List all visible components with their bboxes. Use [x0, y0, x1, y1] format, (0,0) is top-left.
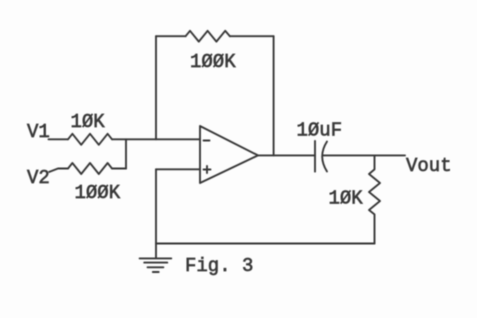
ground	[140, 244, 172, 273]
wire feedback left vertical	[155, 36, 157, 139]
op-amp U1	[200, 126, 258, 183]
svg-text:1ØuF: 1ØuF	[297, 120, 343, 142]
wire feedback top right segment	[230, 35, 274, 37]
wire feedback right vertical to output	[273, 36, 275, 155]
wire Vout node to label	[375, 154, 406, 156]
capacitor C1 left plate	[314, 141, 316, 172]
svg-text:1ØK: 1ØK	[329, 188, 364, 210]
svg-text:V2: V2	[27, 167, 50, 189]
resistor R2 100K	[68, 163, 112, 174]
svg-text:Fig. 3: Fig. 3	[185, 255, 253, 277]
resistor R4 10K vertical	[369, 155, 380, 243]
op-amp minus pin mark	[204, 140, 210, 142]
capacitor C1 curved plate	[322, 142, 327, 172]
wire ground rail	[156, 243, 375, 245]
svg-text:1ØØK: 1ØØK	[190, 51, 236, 73]
wire V1 input	[49, 138, 69, 140]
wire capacitor to Vout node	[323, 154, 375, 156]
svg-text:1ØØK: 1ØØK	[75, 182, 121, 204]
svg-text:V1: V1	[27, 121, 50, 143]
wire feedback top left segment	[156, 35, 186, 37]
wire node A up to inverting line	[125, 139, 127, 168]
wire V2 input	[49, 169, 68, 173]
wire op-amp output to capacitor	[258, 154, 315, 156]
svg-text:1ØK: 1ØK	[71, 111, 106, 133]
wire non-inverting down to ground rail	[155, 169, 157, 243]
svg-text:Vout: Vout	[406, 155, 452, 177]
resistor R1 10K	[68, 134, 112, 145]
wire R1 to op-amp inverting input	[112, 138, 200, 140]
wire R2 to node A	[112, 168, 126, 170]
resistor R3 100K feedback	[186, 31, 230, 42]
op-amp plus pin mark	[204, 166, 211, 173]
wire to non-inverting input	[156, 168, 200, 170]
